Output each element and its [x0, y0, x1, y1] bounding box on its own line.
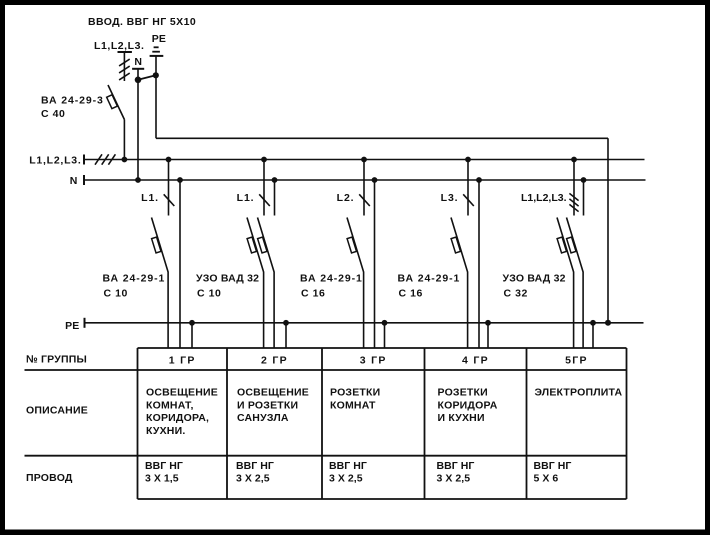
- breaker group 5 body rect 1: [557, 237, 566, 253]
- svg-text:ВВОД. ВВГ НГ 5Х10: ВВОД. ВВГ НГ 5Х10: [88, 16, 196, 28]
- svg-text:L1,L2,L3.: L1,L2,L3.: [29, 155, 81, 167]
- breaker group 5 body rect 2: [567, 237, 576, 253]
- wire PE feed horizontal: [156, 137, 608, 139]
- breaker group 5 blade 2: [567, 218, 584, 274]
- node group 5 tap on PE bus: [590, 320, 596, 326]
- slash marks group 1 conductor: [164, 194, 175, 206]
- svg-text:С 10: С 10: [104, 288, 128, 300]
- wire group 4 N drop: [478, 180, 480, 348]
- node group 1 tap on PE bus: [189, 320, 195, 326]
- breaker group 2 body rect 2: [258, 237, 267, 253]
- svg-text:N: N: [134, 56, 142, 68]
- svg-text:1 ГР: 1 ГР: [169, 355, 196, 367]
- node group 2 tap on L bus: [261, 157, 267, 163]
- slash marks group 3 conductor: [359, 194, 370, 206]
- svg-text:ВВГ НГ: ВВГ НГ: [329, 460, 367, 472]
- svg-text:ВА 24-29-1: ВА 24-29-1: [398, 273, 461, 285]
- node group 3 tap on N bus: [372, 177, 378, 183]
- breaker group 4 body rect 1: [451, 237, 460, 253]
- svg-text:ОСВЕЩЕНИЕ: ОСВЕЩЕНИЕ: [146, 386, 218, 398]
- node group 4 tap on N bus: [476, 177, 482, 183]
- svg-text:L1.: L1.: [237, 192, 255, 204]
- slash marks group 4 conductor: [463, 194, 474, 206]
- svg-text:2 ГР: 2 ГР: [261, 355, 288, 367]
- node N-PE bond on PE: [153, 72, 159, 78]
- svg-text:3 Х 2,5: 3 Х 2,5: [329, 473, 363, 485]
- wire group 2 N drop upper: [274, 180, 276, 216]
- node group 1 tap on L bus: [166, 157, 172, 163]
- breaker group 2 blade 2: [258, 218, 275, 274]
- svg-text:L1,L2,L3.: L1,L2,L3.: [94, 40, 144, 52]
- wire group 1 L drop lower: [167, 274, 169, 349]
- svg-text:КОРИДОРА: КОРИДОРА: [438, 399, 498, 411]
- svg-text:ВА 24-29-3: ВА 24-29-3: [41, 95, 104, 107]
- wire group 3 N drop: [374, 180, 376, 348]
- svg-text:ВВГ НГ: ВВГ НГ: [236, 460, 274, 472]
- wire group 3 PE drop: [384, 323, 386, 348]
- wire group 4 PE drop: [487, 323, 489, 348]
- slash marks group 2 conductor: [259, 194, 270, 206]
- wire PE feed drop: [607, 138, 609, 322]
- svg-text:3 Х 1,5: 3 Х 1,5: [145, 473, 179, 485]
- wire N input vertical: [137, 69, 139, 180]
- wire group 1 PE drop: [191, 323, 193, 348]
- slash marks group 5 conductor: [569, 193, 578, 200]
- svg-text:3 Х 2,5: 3 Х 2,5: [437, 473, 471, 485]
- svg-text:L2.: L2.: [337, 192, 355, 204]
- breaker group 2 body rect 1: [247, 237, 256, 253]
- node group 2 tap on N bus: [272, 177, 278, 183]
- svg-text:УЗО ВАД 32: УЗО ВАД 32: [503, 273, 566, 285]
- wire group 2 L drop upper: [263, 160, 265, 216]
- svg-text:УЗО ВАД 32: УЗО ВАД 32: [196, 273, 259, 285]
- slash marks 3 conductors on L input: [119, 59, 130, 66]
- svg-text:САНУЗЛА: САНУЗЛА: [237, 412, 289, 424]
- wire group 5 N drop upper: [583, 180, 585, 216]
- svg-text:3 ГР: 3 ГР: [360, 355, 387, 367]
- node input on L bus: [122, 157, 128, 163]
- svg-text:N: N: [70, 175, 78, 187]
- terminal tick L input: [118, 51, 132, 53]
- svg-text:ЭЛЕКТРОПЛИТА: ЭЛЕКТРОПЛИТА: [535, 386, 623, 398]
- svg-text:С 10: С 10: [197, 288, 221, 300]
- svg-text:3 Х 2,5: 3 Х 2,5: [236, 473, 270, 485]
- node group 5 tap on N bus: [581, 177, 587, 183]
- breaker group 1 blade 1: [152, 218, 169, 274]
- wire group 5 L drop lower: [573, 274, 575, 349]
- svg-text:5 Х 6: 5 Х 6: [534, 473, 559, 485]
- breaker group 1 body rect 1: [152, 237, 161, 253]
- wire group 5 PE drop: [592, 323, 594, 348]
- wire group 5 N drop lower: [582, 274, 584, 349]
- slash marks 3 conductors on L bus: [95, 154, 102, 164]
- wire group 4 L drop lower: [467, 274, 469, 349]
- svg-text:И РОЗЕТКИ: И РОЗЕТКИ: [237, 399, 298, 411]
- terminal tick L bus: [83, 155, 85, 165]
- svg-text:РОЗЕТКИ: РОЗЕТКИ: [438, 386, 488, 398]
- wire N-PE bond jumper: [138, 75, 156, 80]
- breaker group 3 body rect 1: [347, 237, 356, 253]
- svg-text:5ГР: 5ГР: [565, 355, 588, 367]
- svg-text:КОМНАТ: КОМНАТ: [330, 399, 376, 411]
- svg-text:ПРОВОД: ПРОВОД: [26, 472, 73, 484]
- svg-text:РОЗЕТКИ: РОЗЕТКИ: [330, 386, 380, 398]
- breaker group 2 blade 1: [247, 218, 264, 274]
- wire PE input vertical: [155, 56, 157, 138]
- node N-PE bond on N: [135, 77, 142, 84]
- node group 3 tap on L bus: [361, 157, 367, 163]
- breaker group 3 blade 1: [347, 218, 364, 274]
- svg-text:С 16: С 16: [399, 288, 423, 300]
- svg-text:ВА 24-29-1: ВА 24-29-1: [103, 273, 166, 285]
- node group 1 tap on N bus: [177, 177, 183, 183]
- terminal tick PE bus: [84, 318, 86, 328]
- breaker group 5 blade 1: [557, 218, 574, 274]
- svg-text:ВВГ НГ: ВВГ НГ: [437, 460, 475, 472]
- terminal tick N bus: [83, 175, 85, 185]
- node N input on N bus: [135, 177, 141, 183]
- svg-text:ВВГ НГ: ВВГ НГ: [534, 460, 572, 472]
- terminal tick N input: [132, 68, 144, 70]
- bus N horizontal: [84, 179, 646, 181]
- wire group 3 L drop lower: [363, 274, 365, 349]
- svg-text:№ ГРУППЫ: № ГРУППЫ: [26, 354, 87, 366]
- node group 4 tap on PE bus: [485, 320, 491, 326]
- svg-text:ОПИСАНИЕ: ОПИСАНИЕ: [26, 405, 88, 417]
- svg-text:ВВГ НГ: ВВГ НГ: [145, 460, 183, 472]
- wire group 1 N drop: [179, 180, 181, 348]
- svg-text:L1,L2,L3.: L1,L2,L3.: [521, 192, 567, 204]
- wire input breaker to L bus: [123, 120, 125, 160]
- table grid: [25, 348, 627, 499]
- breaker QF input blade: [108, 85, 124, 120]
- node group 5 tap on L bus: [571, 157, 577, 163]
- svg-text:КОРИДОРА,: КОРИДОРА,: [146, 412, 209, 424]
- node PE feed on PE bus: [605, 320, 611, 326]
- wire group 2 N drop lower: [273, 274, 275, 349]
- bus L1,L2,L3 horizontal: [84, 159, 645, 161]
- svg-text:ВА 24-29-1: ВА 24-29-1: [300, 273, 363, 285]
- breaker QF input body rect: [107, 95, 118, 109]
- node group 4 tap on L bus: [465, 157, 471, 163]
- svg-text:PE: PE: [65, 320, 79, 332]
- svg-text:L1.: L1.: [141, 192, 159, 204]
- svg-text:С 32: С 32: [504, 288, 528, 300]
- svg-text:КОМНАТ,: КОМНАТ,: [146, 399, 194, 411]
- svg-text:КУХНИ.: КУХНИ.: [146, 425, 185, 437]
- node group 3 tap on PE bus: [382, 320, 388, 326]
- wire group 2 PE drop: [285, 323, 287, 348]
- PE terminal symbol bars: [154, 46, 159, 48]
- bus PE horizontal: [85, 322, 644, 324]
- breaker group 4 blade 1: [451, 218, 468, 274]
- svg-text:ОСВЕЩЕНИЕ: ОСВЕЩЕНИЕ: [237, 386, 309, 398]
- svg-text:И КУХНИ: И КУХНИ: [438, 412, 485, 424]
- svg-text:С 40: С 40: [41, 108, 65, 120]
- wire group 1 L drop upper: [168, 160, 170, 216]
- svg-text:4 ГР: 4 ГР: [462, 355, 489, 367]
- svg-text:С 16: С 16: [301, 288, 325, 300]
- svg-text:L3.: L3.: [441, 192, 459, 204]
- wire group 4 L drop upper: [467, 160, 469, 216]
- wire group 2 L drop lower: [263, 274, 265, 349]
- node group 2 tap on PE bus: [283, 320, 289, 326]
- wire group 5 L drop upper: [573, 160, 575, 216]
- wire group 3 L drop upper: [363, 160, 365, 216]
- wire L input vertical: [123, 52, 125, 81]
- svg-text:PE: PE: [152, 33, 166, 45]
